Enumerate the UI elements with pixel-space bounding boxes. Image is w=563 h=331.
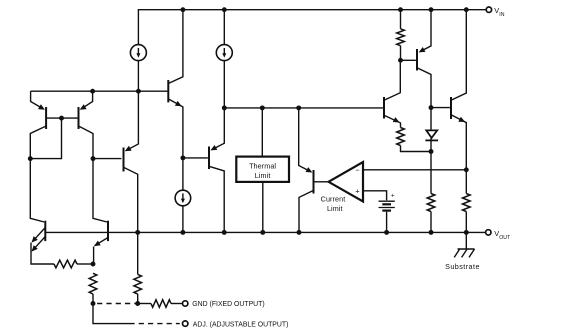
transistor Q8 base bar [208,147,210,170]
resistor R1 [54,260,77,268]
transistor Q10 (PNP) emitter wire [420,10,431,52]
transistor Q9 emitter wire [384,115,401,127]
node: R1 / Q6 emitter / R2 junction [91,262,96,267]
ground substrate symbol [454,249,474,257]
op-amp U1 current limit amplifier [329,162,364,202]
node: base tie junction [59,116,64,121]
svg-text:+: + [355,186,360,195]
svg-text:−: − [355,166,360,175]
transistor Q2 base bar [78,107,80,129]
transistor Q4 base bar [123,148,125,172]
transistor Q4 (PNP) emitter wire [126,91,138,150]
wire: bus down to thermal limit box [261,108,263,157]
transistor Q4 collector wire [124,167,138,232]
svg-text:Current: Current [321,195,346,204]
resistor R3 [134,274,142,294]
svg-text:Limit: Limit [327,204,343,213]
transistor Q9 collector wire [384,60,400,100]
node: Q10 collector / Q11 base / D1 junction [429,105,434,110]
wire: V_OUT rail [45,231,485,233]
transistor Q9 emitter arrow [393,117,400,122]
node: GND row junction at R3 [135,301,140,306]
label GND (FIXED OUTPUT) [192,301,264,308]
node: Q7 emitter / Q8 base / I3 junction [180,155,185,160]
transistor Q10 emitter arrow [419,47,426,52]
transistor Q10 collector wire [417,68,431,108]
transistor Q4 emitter arrow [125,146,132,151]
node: rail junction at Q5 collector [297,230,302,235]
label Current Limit [321,195,346,214]
wire: Q1-Q2 base tie [46,117,78,119]
wire: base tie down to Q1 collector [30,118,61,159]
transistor Q2 emitter arrow [80,104,87,110]
wire: D1 node to R6 [430,152,432,194]
transistor Q8 (PNP) emitter wire [212,108,224,150]
transistor Q1 emitter arrow [38,104,45,110]
transistor Q3 base bar [44,221,46,241]
label V_IN [494,6,504,18]
wire: dashed GND link [93,303,138,305]
wire: R2 to GND node [92,294,94,304]
wire: I2 to bus node [223,61,225,108]
transistor Q1 base bar [45,107,47,129]
resistor R8 [151,300,171,308]
transistor Q11 collector wire [451,10,466,101]
label Substrate [445,262,480,271]
transistor Q11 emitter wire [451,115,466,170]
resistor R4 [397,29,405,46]
node: rail junction at R7 / substrate [464,230,469,235]
node: rail junction at battery [384,230,389,235]
label Thermal Limit [249,161,276,180]
wire: horizontal emitter/base rail y91 [31,90,168,92]
transistor Q10 base bar [416,49,418,71]
terminal V_IN [486,7,491,12]
node: I1 / Q4 emitter junction [136,89,141,94]
wire: I1 to node at y91 [137,61,139,92]
svg-text:Thermal: Thermal [249,161,276,170]
label ADJ. (ADJUSTABLE OUTPUT) [193,321,289,328]
terminal GND [183,301,188,306]
node: D1 cathode junction [429,149,434,154]
label U1 plus input [355,186,360,195]
terminal ADJ [183,321,188,326]
wire: dashed ADJ link [135,323,180,325]
transistor Q3 emitter 1 arrow [32,236,38,243]
wire: Q2 collector down to Q6 collector [93,159,107,222]
transistor Q6 base bar [107,221,109,241]
wire: GND node to R8 [138,303,151,305]
wire: top rail down to I2 [223,10,225,45]
node: rail junction at Q8 collector [222,230,227,235]
svg-text:ADJ. (ADJUSTABLE OUTPUT): ADJ. (ADJUSTABLE OUTPUT) [193,321,289,328]
node: rail junction at R3 [135,230,140,235]
transistor Q5 collector wire [299,190,314,232]
transistor Q11 emitter arrow [458,117,465,122]
label V_OUT [494,229,511,241]
current source I3 [175,190,191,206]
wire: V_IN top rail [138,9,486,11]
resistor R2 [89,273,97,294]
svg-text:OUT: OUT [499,235,511,241]
wire: Q10 base [401,59,416,61]
resistor R5 [397,128,405,146]
svg-text:Limit: Limit [255,171,271,180]
transistor Q5 base bar [313,170,315,194]
transistor Q8 emitter arrow [210,145,217,150]
node: bus junction at Q5 emitter [296,105,301,110]
transistor Q1 (PNP) emitter wire [31,91,44,109]
wire: ADJ branch [93,304,135,324]
node: top rail junction at I2 [222,7,227,12]
wire: thermal limit box to rail [262,182,264,233]
label U1 minus input [355,166,360,175]
svg-text:GND (FIXED OUTPUT): GND (FIXED OUTPUT) [192,301,264,308]
node: top rail junction at Q7 collector [180,7,185,12]
current source I1 [130,45,146,61]
transistor Q11 base bar [450,97,452,119]
transistor Q6 emitter arrow [94,241,101,247]
transistor Q7 collector wire [168,10,183,84]
resistor R6 [427,194,435,212]
wire: Q4 base [93,158,121,160]
transistor Q7 base bar [167,80,169,102]
wire: Q4 collector rail to R3 [137,232,139,274]
wire: node down to I3 [182,158,184,190]
terminal V_OUT [486,230,491,235]
current source I2 [216,45,232,61]
node: top rail junction at R4 [398,7,403,12]
wire: U1 non-inverting input to battery [363,191,387,200]
transistor Q7 emitter wire [168,99,183,158]
wire: R1 to node [77,263,93,265]
resistor R7 [463,194,471,212]
wire: U1 output to Q5 base [314,181,330,183]
wire: R4 to Q10 base node [400,46,402,61]
node: Q1 collector / tie junction [28,156,33,161]
transistor Q6 emitter wire [95,238,108,246]
transistor Q9 base bar [383,97,385,119]
wire: R3 to GND row [137,294,139,304]
transistor Q3 emitter 2 arrow [32,245,38,252]
block: thermal limit box [236,157,289,182]
wire: Q10 collector node to D1 [430,108,432,131]
node: top rail junction at Q10 emitter [429,7,434,12]
wire: top rail to R4 [400,10,402,29]
wire: top rail down to I1 [137,9,139,45]
wire: Q3 emitters to R1 [31,243,54,264]
node: Q11 emitter / U1 input junction [464,167,469,172]
node: rail junction at thermal limit [260,230,265,235]
wire: Q1 collector down to Q3 collector [30,159,44,222]
node: rail junction at I3 [180,230,185,235]
wire: rail to substrate ground [465,232,467,249]
transistor Q2 (PNP) emitter wire [81,91,92,109]
transistor Q2 collector wire [79,126,94,159]
node: R4 / Q10 base / Q9 collector junction [398,58,403,63]
wire: Q8 base [183,157,208,159]
svg-text:Substrate: Substrate [445,262,480,271]
wire: R7 to rail [465,212,467,233]
transistor Q3 emitter 1 wire [32,228,45,242]
node: bus junction at I2 / Q8 emitter [222,105,227,110]
transistor Q5 emitter arrow [306,167,313,172]
node: GND row left junction [91,301,96,306]
node: Q2 collector / Q4 base junction [91,156,96,161]
transistor Q3 emitter 2 wire [32,237,45,251]
node: top rail junction at Q11 collector [464,7,469,12]
wire: R8 to GND terminal [171,303,182,305]
battery BT1 reference [379,201,395,210]
wire: mid horizontal bus y108 [224,107,383,109]
transistor Q1 collector wire [30,126,46,159]
wire: Q6 emitter down to node [93,247,95,264]
transistor Q7 emitter arrow [175,101,182,106]
svg-text:IN: IN [499,12,504,18]
wire: R5 to D1 node [401,146,432,152]
transistor Q5 (PNP) emitter wire [299,108,311,172]
node: Q2 emitter junction [90,89,95,94]
node: rail junction at R6 [429,230,434,235]
node: bus junction at thermal limit [260,105,265,110]
svg-text:+: + [391,193,395,200]
wire: Q11 base [431,107,450,109]
wire: Q11 emitter node to R7 [465,170,467,194]
transistor Q8 collector wire [209,166,224,232]
wire: U1 inverting input to R7 node [363,169,466,171]
diode D1 [425,130,438,151]
wire: I3 to V_OUT rail [182,206,184,233]
wire: battery to rail [386,212,388,233]
label battery plus [391,193,395,200]
wire: R6 to rail [430,212,432,233]
